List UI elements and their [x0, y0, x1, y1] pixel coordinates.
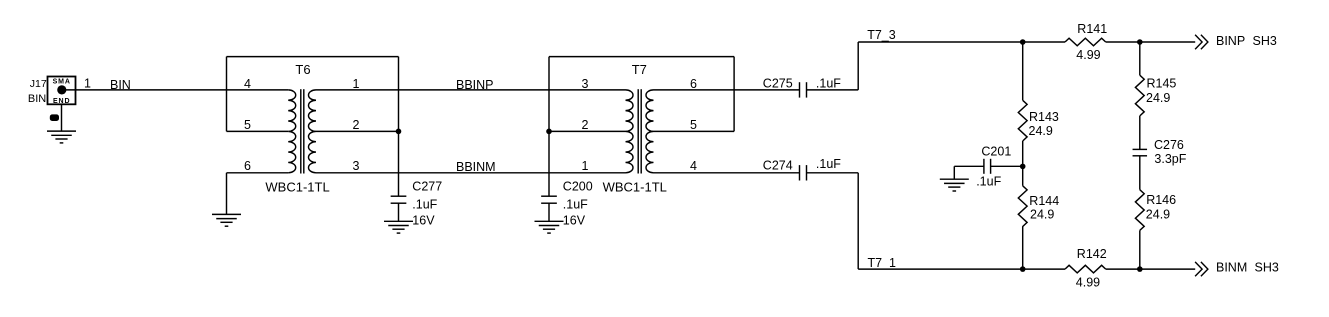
- svg-text:R144: R144: [1029, 194, 1059, 208]
- svg-text:3.3pF: 3.3pF: [1154, 152, 1186, 166]
- connector J17 SMA body: [48, 77, 76, 105]
- svg-text:T7: T7: [632, 62, 647, 77]
- svg-text:4: 4: [244, 77, 251, 91]
- resistor R141: [1065, 38, 1106, 46]
- wire T6 pin 2 (center tap): [316, 130, 399, 132]
- svg-text:SH3: SH3: [1255, 261, 1279, 275]
- svg-text:T7_3: T7_3: [867, 28, 896, 42]
- wire C277 to ground: [398, 203, 400, 221]
- svg-text:J17: J17: [30, 78, 47, 90]
- ground (C277): [384, 220, 413, 222]
- T6 left edge / pin4-pin5 connection: [226, 57, 228, 132]
- svg-text:1: 1: [84, 76, 91, 90]
- wire T7 left edge / center tap down to C200: [548, 57, 550, 197]
- resistor R146: [1135, 190, 1144, 231]
- svg-text:BINP: BINP: [1216, 34, 1245, 48]
- T7 primary winding: [626, 90, 634, 173]
- svg-text:2: 2: [582, 118, 589, 132]
- wire C274 to T7_1 dropper: [807, 172, 859, 174]
- wire R145 to C276: [1139, 116, 1141, 149]
- junction R142 / R146: [1137, 266, 1143, 272]
- wire C200 to ground: [548, 203, 550, 221]
- wire BBINM: T6 pin 3 to T7 pin 1: [316, 172, 626, 174]
- svg-text:WBC1-1TL: WBC1-1TL: [603, 179, 667, 194]
- T6 core: [300, 89, 302, 173]
- wire C275 to T7_3 riser: [807, 89, 859, 91]
- svg-text:24.9: 24.9: [1029, 124, 1053, 138]
- T7 right edge / pin5-pin6 connection: [733, 57, 735, 132]
- capacitor C277: [391, 195, 407, 197]
- svg-text:R142: R142: [1077, 247, 1107, 261]
- wire dropper to T7_1: [857, 173, 859, 269]
- svg-text:24.9: 24.9: [1146, 208, 1170, 222]
- svg-text:BIN: BIN: [28, 93, 46, 105]
- small black marker near J17 ground: [50, 114, 59, 121]
- wire T6 pin 5: [227, 130, 289, 132]
- ground (J17): [47, 130, 76, 132]
- svg-text:.1uF: .1uF: [976, 174, 1001, 188]
- svg-text:3: 3: [582, 77, 589, 91]
- junction R141 / R145: [1137, 39, 1143, 45]
- capacitor C200: [541, 195, 557, 197]
- ground (C200): [535, 220, 564, 222]
- capacitor C276: [1133, 148, 1148, 150]
- resistor R142: [1065, 265, 1106, 273]
- svg-text:C276: C276: [1154, 138, 1184, 152]
- ground (T6 pin 6): [212, 213, 241, 215]
- svg-text:T7_1: T7_1: [868, 256, 897, 270]
- svg-text:16V: 16V: [412, 213, 435, 227]
- svg-text:C274: C274: [763, 158, 793, 172]
- wire T7_3 to R145: [1139, 42, 1141, 75]
- svg-text:BINM: BINM: [1216, 261, 1247, 275]
- svg-text:5: 5: [244, 118, 251, 132]
- svg-text:R146: R146: [1146, 193, 1176, 207]
- svg-text:1: 1: [582, 159, 589, 173]
- svg-text:BBINM: BBINM: [456, 160, 496, 174]
- resistor R143: [1018, 100, 1027, 141]
- resistor R145: [1135, 75, 1144, 116]
- wire R143 to C201 node: [1022, 141, 1024, 186]
- svg-text:END: END: [53, 98, 70, 105]
- svg-text:R145: R145: [1147, 76, 1177, 90]
- wire BIN: J17 pin 1 to T6 pin 4: [62, 89, 288, 91]
- svg-text:5: 5: [690, 118, 697, 132]
- wire T7_3 to R143: [1022, 42, 1024, 100]
- wire J17 shield to ground: [61, 104, 63, 131]
- svg-text:4: 4: [690, 159, 697, 173]
- svg-text:.1uF: .1uF: [816, 157, 841, 171]
- svg-text:2: 2: [353, 118, 360, 132]
- wire riser to T7_3: [857, 42, 859, 90]
- resistor R144: [1018, 186, 1027, 227]
- capacitor C201: [983, 159, 985, 174]
- svg-text:C275: C275: [763, 76, 793, 90]
- ground (C201): [940, 178, 969, 180]
- svg-text:R143: R143: [1029, 110, 1059, 124]
- svg-text:4.99: 4.99: [1076, 276, 1100, 290]
- off-page connector BINM: [1195, 262, 1202, 276]
- svg-text:24.9: 24.9: [1030, 208, 1054, 222]
- wire net T7_3 (left segment): [858, 41, 1065, 43]
- wire R144 to T7_1: [1022, 226, 1024, 269]
- svg-text:.1uF: .1uF: [816, 77, 841, 91]
- svg-text:24.9: 24.9: [1146, 91, 1170, 105]
- capacitor C275: [799, 82, 801, 97]
- connector J17 center pin: [57, 85, 66, 94]
- junction R143/R144/C201: [1020, 164, 1026, 170]
- wire R141 to BINP connector: [1106, 41, 1196, 43]
- svg-text:SMA: SMA: [53, 79, 71, 86]
- svg-text:.1uF: .1uF: [412, 198, 437, 212]
- svg-text:BBINP: BBINP: [456, 78, 494, 92]
- T7 secondary winding: [646, 90, 654, 173]
- svg-text:6: 6: [244, 159, 251, 173]
- svg-text:3: 3: [353, 159, 360, 173]
- wire R146 to T7_1: [1139, 230, 1141, 269]
- svg-text:4.99: 4.99: [1076, 48, 1100, 62]
- wire net T7_1 (left segment): [858, 268, 1065, 270]
- svg-text:SH3: SH3: [1253, 34, 1277, 48]
- wire R142 to BINM connector: [1106, 268, 1196, 270]
- svg-text:.1uF: .1uF: [563, 198, 588, 212]
- junction T7 pin 2 / C200: [546, 129, 552, 135]
- junction T7_1 / R144: [1020, 266, 1026, 272]
- transformer T6 body outline: [227, 56, 399, 58]
- svg-text:C277: C277: [412, 179, 442, 193]
- T7 core: [637, 89, 639, 173]
- wire T7 pin 4 to C274: [654, 172, 800, 174]
- junction T7_3 / R143: [1020, 39, 1026, 45]
- wire T7 pin 5: [654, 130, 735, 132]
- svg-text:WBC1-1TL: WBC1-1TL: [265, 179, 329, 194]
- wire T6 pin 6: [227, 172, 289, 174]
- svg-text:R141: R141: [1077, 22, 1107, 36]
- wire T6 pin 6 to ground: [226, 173, 228, 215]
- svg-text:6: 6: [690, 77, 697, 91]
- svg-text:C200: C200: [563, 179, 593, 193]
- T6 secondary winding: [308, 90, 316, 173]
- T6 primary winding: [288, 90, 296, 173]
- off-page connector BINP: [1195, 35, 1202, 49]
- wire C201 to node: [991, 165, 1023, 167]
- capacitor C274: [799, 165, 801, 180]
- transformer T7 body outline: [549, 56, 734, 58]
- wire C276 to R146: [1139, 156, 1141, 190]
- junction T6 pin 2 / C277: [396, 129, 402, 135]
- svg-text:T6: T6: [295, 62, 310, 77]
- wire C201 to ground: [954, 165, 984, 167]
- svg-text:16V: 16V: [563, 213, 586, 227]
- wire BBINP: T6 pin 1 to T7 pin 3: [316, 89, 626, 91]
- svg-text:C201: C201: [981, 145, 1011, 159]
- svg-text:1: 1: [353, 77, 360, 91]
- svg-text:BIN: BIN: [110, 78, 131, 92]
- wire T7 pin 2 (center tap): [549, 130, 626, 132]
- wire T7 pin 6 to C275: [654, 89, 800, 91]
- wire T6 right edge / center tap down to C277: [398, 57, 400, 197]
